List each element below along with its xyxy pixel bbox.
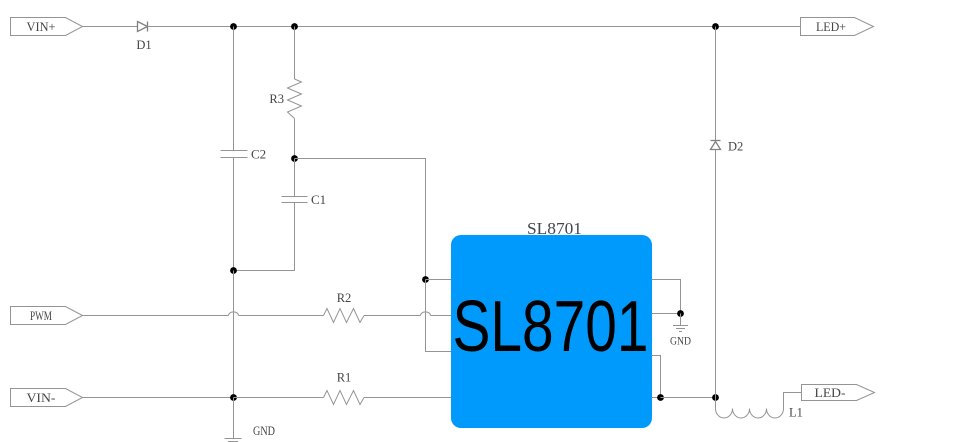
svg-text:SL8701: SL8701	[453, 287, 649, 367]
wire feed into IC pin 1	[426, 279, 452, 281]
node junction C1 return on C2 branch	[230, 267, 237, 274]
svg-text:C2: C2	[251, 147, 266, 162]
wire hop over IC feed	[421, 312, 431, 316]
wire junction to R1	[234, 397, 324, 399]
wire R2 to hop	[364, 315, 421, 317]
svg-text:C1: C1	[311, 192, 326, 207]
wire IC right pin C	[652, 356, 661, 398]
wire hop to R2	[239, 315, 324, 317]
svg-text:LED-: LED-	[815, 385, 846, 400]
svg-text:VIN+: VIN+	[27, 19, 56, 34]
wire hop to IC pin 2	[431, 315, 452, 317]
node junction right pins	[677, 310, 684, 317]
wire to SW node	[661, 397, 716, 399]
port LED+	[801, 18, 874, 36]
wire hop over C2 branch	[229, 312, 239, 316]
resistor R2	[324, 291, 365, 323]
capacitor C1	[282, 192, 327, 207]
svg-text:L1: L1	[789, 406, 803, 420]
node junction VIN-/GND	[230, 394, 237, 401]
svg-text:D1: D1	[136, 38, 151, 52]
wire VIN+ to D1	[83, 26, 138, 28]
wire PWM to hop	[83, 315, 229, 317]
svg-text:R1: R1	[337, 371, 352, 385]
node junction at R3 branch top	[291, 23, 298, 30]
node junction R3/C1	[291, 155, 298, 162]
node junction pin D	[657, 394, 664, 401]
svg-text:GND: GND	[670, 334, 691, 348]
port VIN-	[11, 389, 83, 407]
svg-text:SL8701: SL8701	[527, 219, 582, 238]
node junction at D2 branch top	[712, 23, 719, 30]
capacitor C2	[221, 147, 267, 162]
svg-text:R3: R3	[269, 92, 284, 106]
svg-text:GND: GND	[253, 424, 275, 438]
wire VIN- to junction	[83, 397, 234, 399]
wire C2 branch upper	[233, 27, 235, 151]
port LED-	[802, 385, 875, 401]
wire C1 top	[294, 159, 296, 197]
svg-text:VIN-: VIN-	[27, 390, 56, 405]
IC U1 SL8701 body	[451, 235, 652, 428]
wire IC right pin D	[652, 397, 661, 399]
wire node to right vertical feed	[295, 159, 426, 280]
ground symbol bottom	[225, 424, 276, 442]
port VIN+	[11, 18, 83, 36]
wire top net D1 to LED+	[148, 26, 801, 28]
svg-text:LED+: LED+	[816, 19, 846, 34]
node junction SW	[712, 394, 719, 401]
wire R1 to IC pin 4	[364, 397, 451, 399]
wire IC right pin A	[652, 280, 681, 314]
svg-text:PWM: PWM	[30, 308, 52, 323]
svg-text:D2: D2	[728, 140, 743, 154]
wire down to ground	[233, 398, 235, 439]
diode D1	[136, 22, 151, 53]
wire C1 bottom to C2 branch	[234, 203, 295, 271]
resistor R3	[269, 79, 301, 119]
port PWM	[11, 307, 83, 325]
inductor L1	[716, 393, 803, 420]
wire IC right pin B	[652, 313, 681, 315]
node junction at C2 branch top	[230, 23, 237, 30]
wire C2 branch lower	[233, 158, 235, 271]
node junction at IC pin feed	[422, 276, 429, 283]
resistor R1	[324, 371, 365, 405]
wire to GND symbol	[680, 314, 682, 326]
diode D2	[711, 140, 744, 154]
wire D2 branch from top	[715, 27, 717, 141]
svg-text:R2: R2	[337, 291, 352, 305]
wire R3 branch upper	[294, 27, 296, 80]
ground symbol right	[670, 326, 691, 348]
wire R3 bottom to node	[294, 119, 296, 159]
wire C2 branch to VIN- net	[233, 271, 235, 398]
wire feed down to IC pin 3	[426, 280, 452, 352]
wire D2 to SW node	[715, 150, 717, 398]
